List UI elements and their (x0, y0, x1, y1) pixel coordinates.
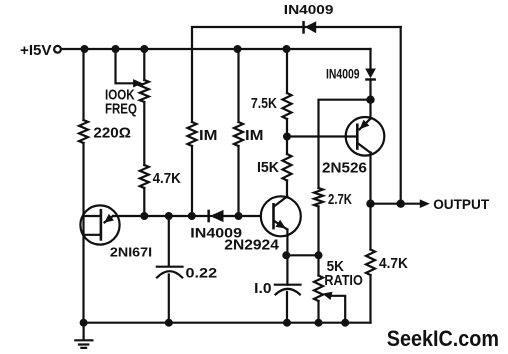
svg-text:4.7K: 4.7K (379, 255, 408, 272)
svg-text:IM: IM (199, 127, 218, 144)
svg-text:220Ω: 220Ω (93, 124, 130, 141)
svg-text:I5K: I5K (257, 159, 279, 176)
svg-text:2N2924: 2N2924 (224, 236, 279, 253)
svg-text:I.0: I.0 (254, 280, 271, 297)
svg-text:SeekIC.com: SeekIC.com (387, 326, 499, 351)
svg-text:7.5K: 7.5K (251, 95, 277, 112)
svg-text:0.22: 0.22 (186, 265, 218, 281)
svg-text:OUTPUT: OUTPUT (433, 196, 489, 212)
svg-text:2N526: 2N526 (322, 160, 367, 177)
svg-text:4.7K: 4.7K (153, 170, 181, 187)
svg-text:IN4009: IN4009 (326, 65, 360, 81)
svg-text:2.7K: 2.7K (328, 191, 352, 208)
svg-text:FREQ: FREQ (105, 101, 137, 118)
svg-text:RATIO: RATIO (324, 272, 363, 289)
svg-text:IN4009: IN4009 (284, 2, 334, 17)
svg-text:IM: IM (245, 127, 264, 144)
svg-text:+I5V: +I5V (20, 42, 52, 59)
svg-text:2NI67I: 2NI67I (110, 245, 152, 260)
